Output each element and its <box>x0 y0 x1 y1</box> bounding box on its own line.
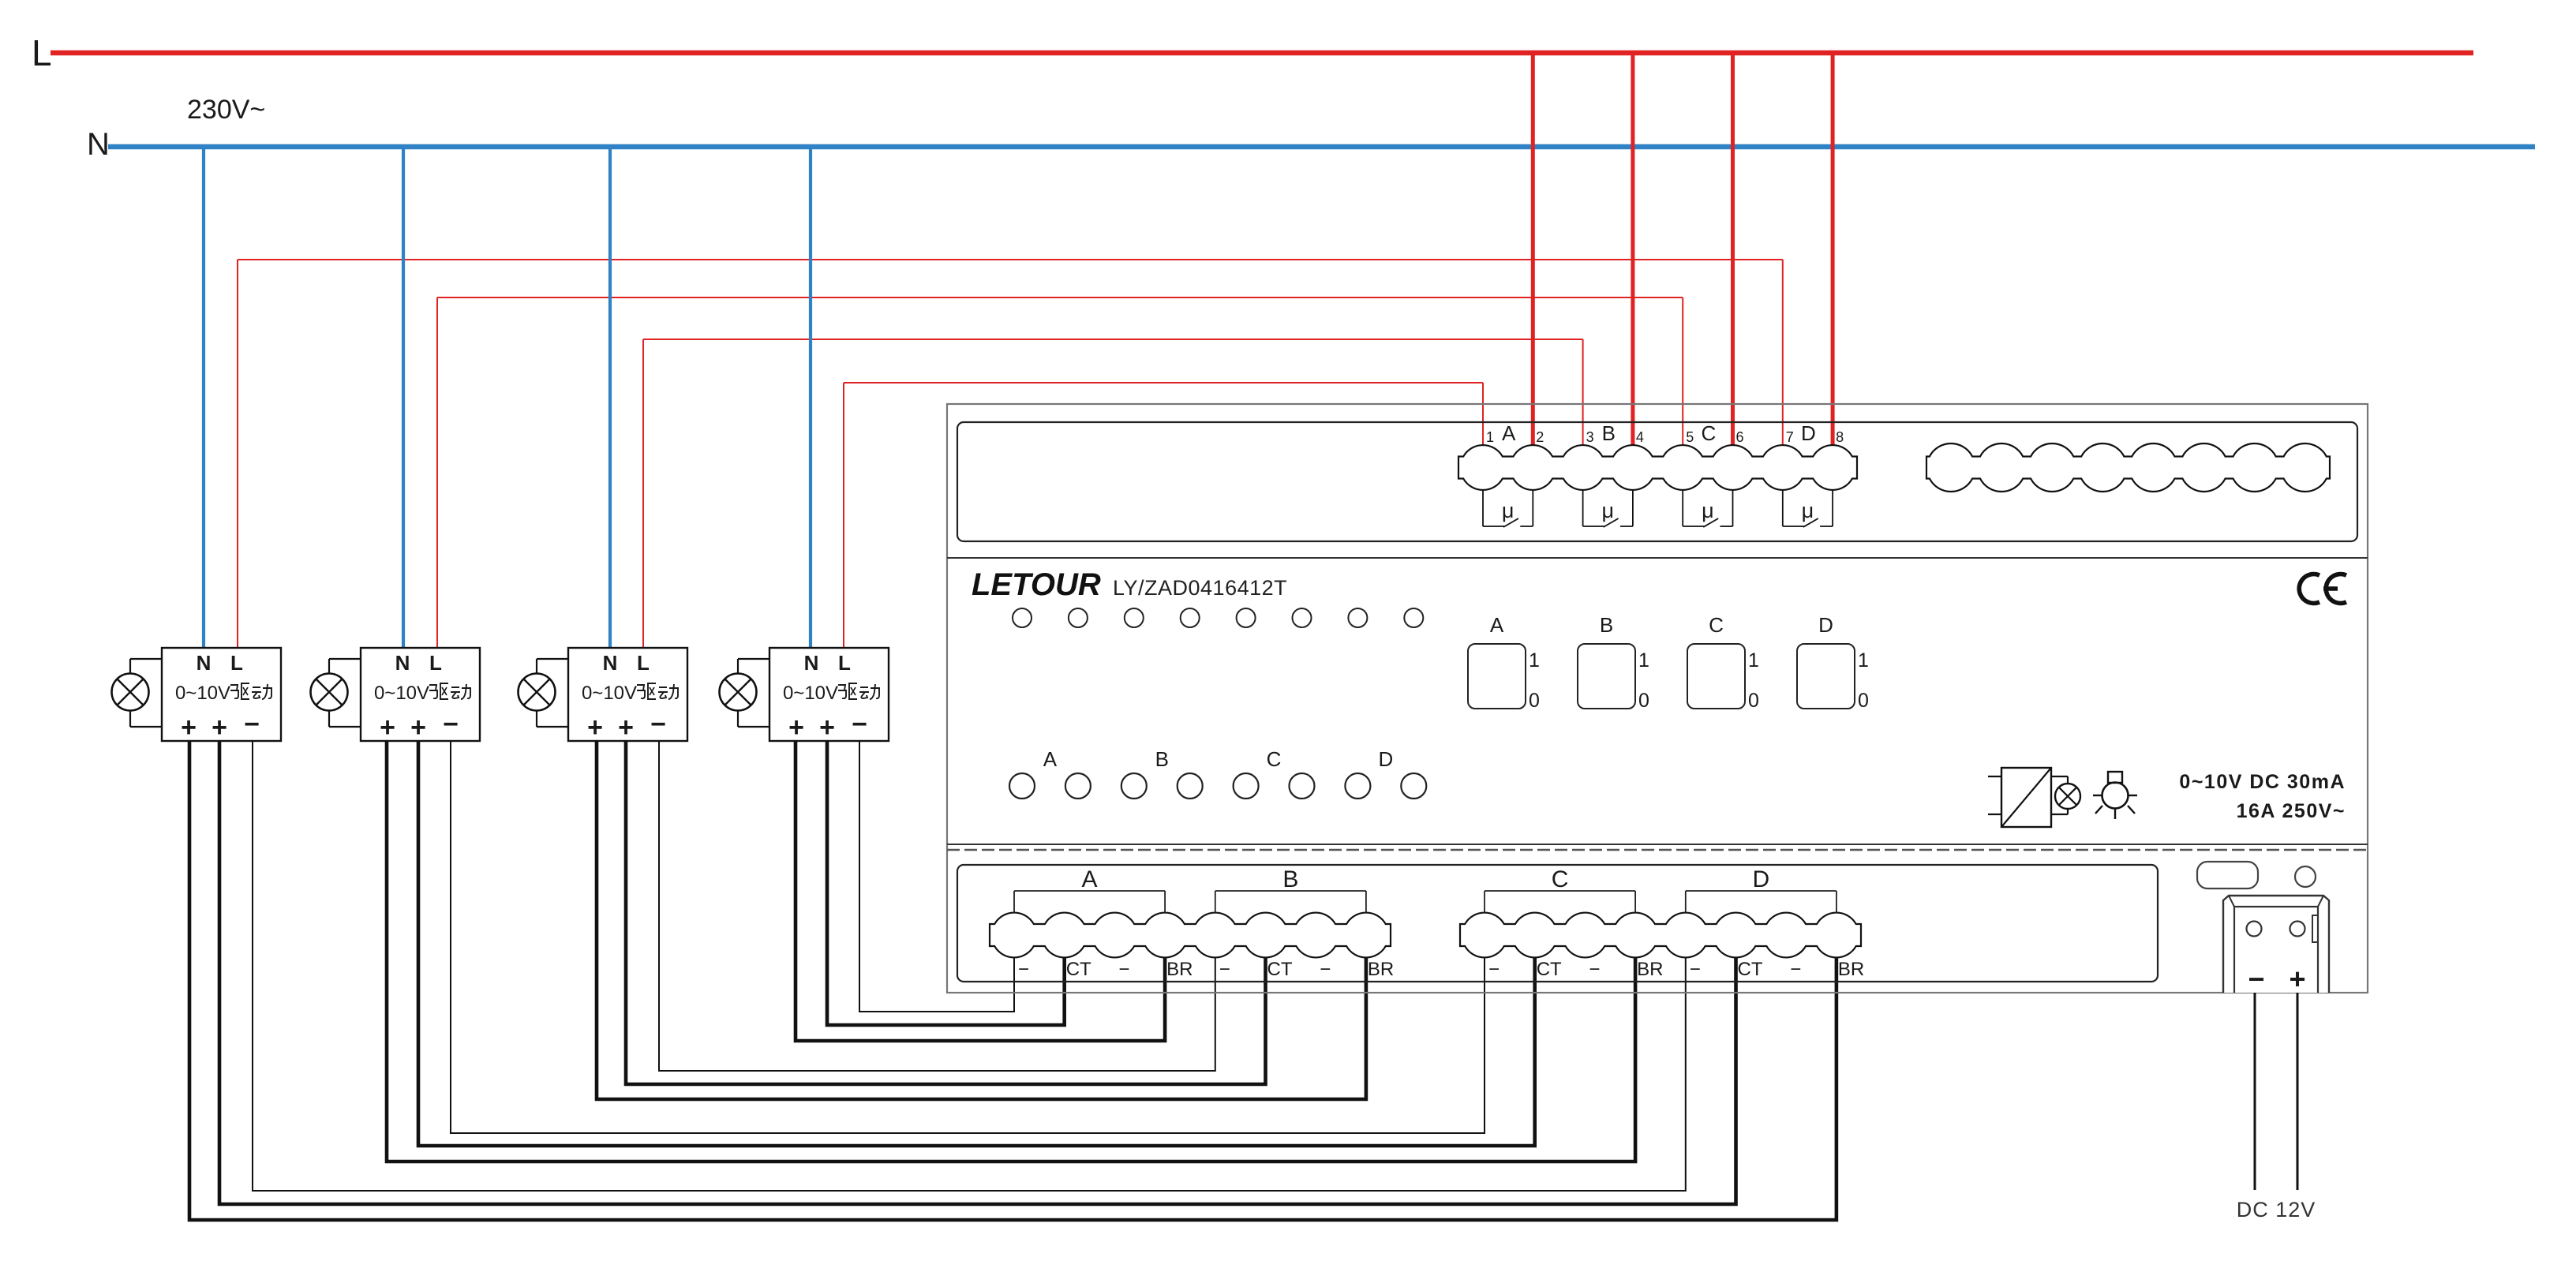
svg-text:+: + <box>380 713 395 743</box>
svg-text:−: − <box>443 709 459 739</box>
svg-text:C: C <box>1701 421 1716 445</box>
svg-text:B: B <box>1600 613 1613 637</box>
svg-text:1: 1 <box>1486 429 1494 445</box>
svg-text:0: 0 <box>1748 690 1759 712</box>
svg-text:D: D <box>1753 866 1770 892</box>
svg-text:L: L <box>230 651 243 675</box>
svg-text:L: L <box>429 651 442 675</box>
svg-text:C: C <box>1552 866 1569 892</box>
svg-text:μ: μ <box>1802 499 1814 522</box>
svg-text:−: − <box>1488 959 1500 980</box>
svg-text:1: 1 <box>1638 649 1649 672</box>
svg-text:3: 3 <box>1586 429 1594 445</box>
svg-text:−: − <box>852 709 867 739</box>
svg-text:N: N <box>603 651 618 675</box>
svg-text:N: N <box>197 651 212 675</box>
svg-text:−: − <box>1320 959 1331 980</box>
svg-text:16A 250V~: 16A 250V~ <box>2237 800 2346 822</box>
svg-text:0~10V: 0~10V <box>175 683 230 704</box>
svg-text:+: + <box>181 713 197 743</box>
svg-text:N: N <box>804 651 819 675</box>
svg-text:A: A <box>1043 747 1058 771</box>
svg-text:230V~: 230V~ <box>187 95 265 125</box>
svg-text:+: + <box>788 713 804 743</box>
svg-text:+: + <box>587 713 603 743</box>
svg-text:μ: μ <box>1502 499 1515 522</box>
svg-text:C: C <box>1267 747 1282 771</box>
svg-text:0~10V: 0~10V <box>783 683 838 704</box>
svg-text:BR: BR <box>1368 959 1394 980</box>
svg-text:1: 1 <box>1858 649 1869 672</box>
svg-text:μ: μ <box>1601 499 1614 522</box>
svg-text:−: − <box>1018 959 1029 980</box>
svg-text:L: L <box>838 651 851 675</box>
svg-text:B: B <box>1155 747 1169 771</box>
svg-text:−: − <box>650 709 666 739</box>
svg-text:L: L <box>637 651 650 675</box>
svg-text:−: − <box>2248 963 2264 995</box>
svg-text:0: 0 <box>1529 690 1540 712</box>
svg-text:0: 0 <box>1858 690 1869 712</box>
svg-text:D: D <box>1801 421 1816 445</box>
svg-text:CT: CT <box>1066 959 1091 980</box>
svg-text:0: 0 <box>1638 690 1649 712</box>
svg-text:1: 1 <box>1748 649 1759 672</box>
svg-text:C: C <box>1709 613 1724 637</box>
svg-text:CT: CT <box>1267 959 1293 980</box>
svg-text:CT: CT <box>1537 959 1562 980</box>
svg-text:+: + <box>2289 963 2305 995</box>
svg-text:D: D <box>1378 747 1393 771</box>
svg-text:BR: BR <box>1166 959 1193 980</box>
svg-text:−: − <box>1790 959 1801 980</box>
svg-text:L: L <box>32 32 52 73</box>
svg-text:N: N <box>395 651 410 675</box>
svg-text:5: 5 <box>1686 429 1694 445</box>
svg-text:+: + <box>410 713 426 743</box>
svg-text:−: − <box>1118 959 1129 980</box>
svg-text:−: − <box>1219 959 1230 980</box>
svg-text:μ: μ <box>1702 499 1714 522</box>
svg-text:8: 8 <box>1836 429 1844 445</box>
svg-text:LY/ZAD0416412T: LY/ZAD0416412T <box>1113 576 1287 600</box>
svg-text:7: 7 <box>1786 429 1794 445</box>
svg-text:DC 12V: DC 12V <box>2237 1198 2316 1222</box>
svg-text:+: + <box>618 713 634 743</box>
svg-text:LETOUR: LETOUR <box>972 567 1101 602</box>
svg-text:−: − <box>244 709 260 739</box>
svg-text:CT: CT <box>1738 959 1763 980</box>
svg-text:−: − <box>1589 959 1600 980</box>
svg-text:BR: BR <box>1637 959 1663 980</box>
svg-text:+: + <box>819 713 835 743</box>
svg-text:1: 1 <box>1529 649 1540 672</box>
svg-text:0~10V: 0~10V <box>374 683 429 704</box>
svg-text:N: N <box>87 127 110 162</box>
svg-text:0~10V DC 30mA: 0~10V DC 30mA <box>2179 771 2346 793</box>
svg-text:A: A <box>1502 421 1516 445</box>
svg-text:BR: BR <box>1838 959 1864 980</box>
svg-text:−: − <box>1690 959 1701 980</box>
svg-text:D: D <box>1818 613 1833 637</box>
svg-text:0~10V: 0~10V <box>582 683 637 704</box>
svg-text:6: 6 <box>1735 429 1743 445</box>
svg-text:+: + <box>212 713 227 743</box>
svg-text:4: 4 <box>1636 429 1644 445</box>
svg-text:B: B <box>1282 866 1298 892</box>
svg-text:A: A <box>1490 613 1504 637</box>
svg-text:2: 2 <box>1536 429 1544 445</box>
svg-text:B: B <box>1602 421 1616 445</box>
svg-text:A: A <box>1082 866 1098 892</box>
